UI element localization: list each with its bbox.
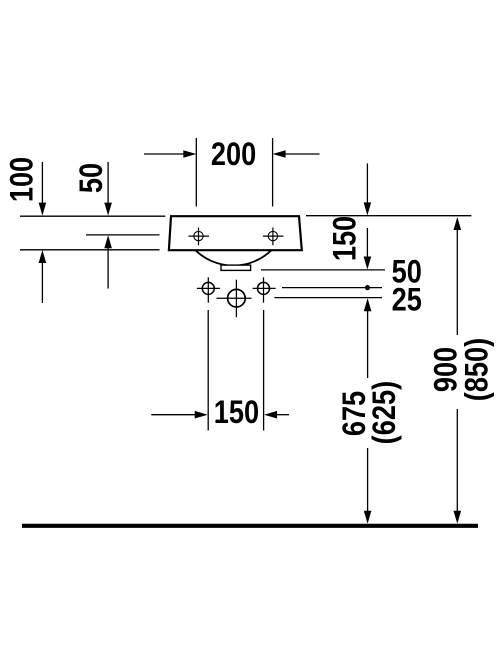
ref line with dot xyxy=(282,287,382,289)
dim100 down xyxy=(39,203,47,216)
bowl arc xyxy=(196,250,272,265)
right tap hole crosshair xyxy=(263,228,284,246)
arrowheads xyxy=(39,150,462,524)
dim 100 arrow shafts xyxy=(41,162,43,205)
dim675 down xyxy=(364,511,372,524)
dim200 left xyxy=(273,150,286,158)
dim50 down xyxy=(104,203,112,216)
basin outline xyxy=(169,216,302,250)
svg-text:150: 150 xyxy=(327,216,363,261)
svg-text:(625): (625) xyxy=(367,381,403,444)
dim 150 right arrow shafts xyxy=(366,163,368,205)
centre drain hole xyxy=(217,280,252,318)
dim150b right xyxy=(195,411,208,419)
dim 675 shaft xyxy=(367,309,369,378)
dim150r top down xyxy=(364,202,372,215)
dim 200 extension lines xyxy=(195,138,197,207)
svg-text:(850): (850) xyxy=(459,338,495,401)
dim50 up xyxy=(104,235,112,248)
dim 900 shaft xyxy=(456,228,458,335)
dim900 down xyxy=(454,511,462,524)
dim100 up xyxy=(39,250,47,263)
dim150r bottom down xyxy=(364,257,372,270)
bottom 150 extension lines xyxy=(207,310,209,431)
wall reference line left xyxy=(20,215,165,217)
svg-text:200: 200 xyxy=(211,137,256,173)
dim200 right xyxy=(183,150,196,158)
svg-text:150: 150 xyxy=(214,395,259,431)
svg-text:25: 25 xyxy=(392,282,422,318)
left tap hole crosshair xyxy=(189,228,210,246)
left fixing hole xyxy=(197,277,220,302)
dim675 up xyxy=(364,298,372,311)
right fixing hole xyxy=(253,277,276,302)
ref line 50 right xyxy=(261,269,385,271)
dim900 up xyxy=(454,217,462,230)
wall reference line right xyxy=(306,215,471,217)
dim 200 arrow lines xyxy=(144,153,186,155)
dot on reference line xyxy=(365,285,370,290)
drain rectangle xyxy=(221,265,251,270)
ref line 25 right xyxy=(275,297,383,299)
dim150b left xyxy=(264,411,277,419)
tap-hole reference line left xyxy=(86,234,160,236)
dim 50 arrow shafts xyxy=(107,162,109,205)
basin bottom reference line left xyxy=(20,249,160,251)
bottom 150 arrow lines xyxy=(151,414,197,416)
floor line xyxy=(22,524,478,528)
svg-text:100: 100 xyxy=(4,157,40,202)
svg-text:50: 50 xyxy=(74,163,110,193)
